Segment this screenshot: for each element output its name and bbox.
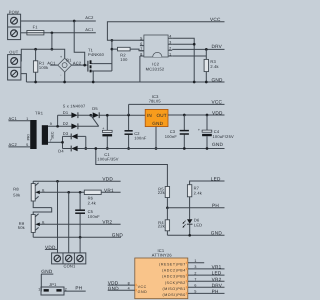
svg-text:6: 6 xyxy=(140,42,142,46)
wire AC2 node down to T1 gate area xyxy=(74,21,85,65)
svg-text:JP1: JP1 xyxy=(49,282,57,287)
node pin7 entry xyxy=(61,141,64,144)
wire PH line xyxy=(167,207,224,209)
svg-text:5: 5 xyxy=(194,290,196,294)
wire D3 cathode down xyxy=(85,136,87,148)
svg-text:(MISO)PB1: (MISO)PB1 xyxy=(162,287,185,291)
svg-text:2.4k: 2.4k xyxy=(88,200,96,205)
node VDD to CON1 xyxy=(56,180,59,183)
wire VCC top rail xyxy=(107,22,224,41)
fuse F1 xyxy=(27,25,44,35)
svg-text:1: 1 xyxy=(169,52,171,56)
capacitor C2 100nF xyxy=(125,115,147,149)
wire pin2 DRV line xyxy=(172,48,224,50)
svg-text:8: 8 xyxy=(140,52,142,56)
svg-text:F1: F1 xyxy=(33,25,39,30)
wire CON1-2 vertical xyxy=(68,192,70,253)
wire pin8 to ground rail xyxy=(139,56,141,82)
svg-text:GND: GND xyxy=(41,269,53,274)
voltage regulator IC3 78L05 xyxy=(145,94,168,127)
svg-text:4: 4 xyxy=(128,287,130,291)
svg-text:3: 3 xyxy=(169,41,171,45)
wire OUT-1 up to bridge + xyxy=(21,49,65,61)
svg-text:POW: POW xyxy=(9,9,19,14)
microcontroller IC1 ATTINY26 xyxy=(135,248,188,299)
svg-text:GND: GND xyxy=(212,142,224,147)
svg-text:5: 5 xyxy=(140,37,142,41)
wire CON1-3 vertical xyxy=(79,237,81,253)
wire IC1 pin5 PH xyxy=(188,292,225,294)
trimmer R8 50k xyxy=(13,181,84,207)
svg-text:PH: PH xyxy=(75,286,82,291)
node C1 top xyxy=(106,114,109,117)
svg-text:6: 6 xyxy=(194,284,196,288)
net label GND at JP1 xyxy=(41,269,53,274)
wire OUT-2 to ground rail xyxy=(21,74,27,82)
wire D3-D4 anodes xyxy=(62,136,64,148)
svg-text:1: 1 xyxy=(194,259,196,263)
node D2 anode xyxy=(56,125,59,128)
node F1 to OUT line xyxy=(51,48,54,51)
svg-text:D4: D4 xyxy=(58,149,64,154)
svg-text:+: + xyxy=(198,128,200,132)
svg-text:IN: IN xyxy=(147,113,152,118)
wire POW-1 to AC2 stub xyxy=(21,20,96,22)
wire GND label to JP1 xyxy=(40,274,42,291)
node R5 feed xyxy=(94,147,97,150)
connector OUT xyxy=(8,50,21,80)
capacitor C1 100uF/35V xyxy=(97,115,119,161)
node pin5 line xyxy=(111,39,114,42)
wire POW-2 to fuse xyxy=(21,32,27,34)
jumper JP1 xyxy=(38,282,66,295)
node T1 source xyxy=(92,81,95,84)
diode D5 xyxy=(91,106,145,118)
wire LED line xyxy=(190,181,225,185)
op-amp driver IC2 MC33152 xyxy=(140,35,172,72)
bridge rectifier B1 xyxy=(58,55,72,77)
svg-text:LED: LED xyxy=(212,271,222,276)
resistor R3 xyxy=(204,49,219,82)
svg-text:GND: GND xyxy=(152,121,163,126)
resistor R2 xyxy=(112,47,144,62)
capacitor C3 100nF xyxy=(165,115,189,149)
svg-text:100k: 100k xyxy=(39,65,48,70)
svg-text:2: 2 xyxy=(194,271,196,275)
svg-text:VDD: VDD xyxy=(212,111,223,116)
wire pin4 to pin3 xyxy=(172,38,194,44)
svg-text:DRV: DRV xyxy=(212,283,223,288)
wire F1 to AC1 stub xyxy=(44,32,96,34)
svg-text:2.4k: 2.4k xyxy=(194,190,202,195)
svg-text:50k: 50k xyxy=(13,192,20,197)
svg-text:VCC: VCC xyxy=(212,100,223,105)
svg-text:CON1: CON1 xyxy=(64,264,76,269)
wire IC1 pin1 stub xyxy=(188,262,204,264)
node R3 top xyxy=(205,48,208,51)
svg-text:AC1: AC1 xyxy=(85,27,94,32)
wire IC1 pin2 LED xyxy=(188,274,225,276)
svg-text:D5: D5 xyxy=(92,106,98,111)
svg-text:B1: B1 xyxy=(66,58,72,63)
node R2 left xyxy=(111,48,114,51)
svg-text:22k: 22k xyxy=(158,190,165,195)
svg-text:GND: GND xyxy=(112,233,124,238)
svg-text:D1: D1 xyxy=(63,110,69,115)
node pins 3-4 xyxy=(193,43,196,46)
svg-text:7: 7 xyxy=(140,47,142,51)
svg-text:OUT: OUT xyxy=(9,50,18,55)
diode D4 xyxy=(58,146,86,154)
capacitor C5 100nF xyxy=(75,192,100,237)
svg-text:PH: PH xyxy=(212,289,219,294)
transformer TR1 xyxy=(9,111,55,149)
svg-text:22k: 22k xyxy=(158,224,165,229)
svg-text:5: 5 xyxy=(26,143,28,147)
svg-text:P4NK60: P4NK60 xyxy=(88,52,105,57)
wire IC1 pin7 VR2 xyxy=(188,280,225,282)
node wiper to CON1 xyxy=(67,191,70,194)
svg-text:100nF: 100nF xyxy=(165,134,178,139)
wire D1-D2 anodes xyxy=(57,115,59,126)
wire JP1 pin2 PH stub xyxy=(64,290,86,292)
svg-text:4: 4 xyxy=(169,35,171,39)
node F1 output xyxy=(51,31,54,34)
svg-text:50k: 50k xyxy=(18,225,25,230)
node C4 top xyxy=(206,114,209,117)
svg-text:1: 1 xyxy=(38,288,40,292)
svg-text:(MOSI)PB0: (MOSI)PB0 xyxy=(162,293,185,297)
node C4 bottom xyxy=(206,147,209,150)
node C1 bottom xyxy=(106,147,109,150)
wire CON1-1 vertical xyxy=(57,181,59,253)
wire IC1 pin3 VR1 xyxy=(188,268,225,270)
wire GND rail lower right xyxy=(167,234,224,236)
svg-text:DRV: DRV xyxy=(212,44,223,49)
svg-text:78L05: 78L05 xyxy=(149,98,162,103)
svg-text:(SCK)PB2: (SCK)PB2 xyxy=(165,281,186,285)
wire zero-cross feed to R5 xyxy=(96,149,168,187)
resistor R4 xyxy=(158,208,170,236)
node C3 top xyxy=(183,114,186,117)
resistor R1 xyxy=(33,49,48,82)
svg-text:D2: D2 xyxy=(63,121,69,126)
svg-text:S: S xyxy=(42,188,45,193)
svg-text:VR2: VR2 xyxy=(102,220,112,225)
node wiper to C5 xyxy=(79,191,82,194)
wire sec pin9 to D2 xyxy=(48,125,71,127)
wire bridge minus down to rail xyxy=(64,72,66,82)
wire VCC rail to IN line xyxy=(128,104,130,115)
svg-text:100nF: 100nF xyxy=(134,136,147,141)
svg-text:100uF/25V: 100uF/25V xyxy=(213,134,235,139)
node R3 bottom xyxy=(205,81,208,84)
resistor R6 xyxy=(84,190,120,205)
svg-text:TR1: TR1 xyxy=(35,111,44,116)
diode D3 xyxy=(63,131,86,139)
svg-text:AC2: AC2 xyxy=(9,142,18,147)
svg-text:GND: GND xyxy=(212,77,224,82)
svg-text:LED: LED xyxy=(211,176,221,181)
node IC3 gnd xyxy=(155,147,158,150)
svg-text:GND: GND xyxy=(211,231,223,236)
resistor R7 xyxy=(187,185,202,220)
svg-text:S: S xyxy=(42,220,45,225)
svg-text:8: 8 xyxy=(128,281,130,285)
node on AC2 line xyxy=(73,20,76,23)
svg-text:2: 2 xyxy=(169,47,171,51)
svg-text:LED: LED xyxy=(194,222,202,227)
wire VDD mid line xyxy=(33,180,120,182)
node C2 top xyxy=(127,114,130,117)
svg-text:100nF: 100nF xyxy=(88,214,101,219)
diode D1 xyxy=(58,110,91,118)
svg-text:MC33152: MC33152 xyxy=(146,66,165,71)
svg-text:VCC: VCC xyxy=(210,17,221,22)
ground rail mid xyxy=(78,148,225,150)
svg-text:(ADC2)PB4: (ADC2)PB4 xyxy=(162,269,186,273)
transistor T1 P4NK60 xyxy=(88,47,112,82)
wire pin1 to R3 xyxy=(172,55,206,57)
net label VDD at CON1 xyxy=(45,245,58,250)
svg-text:PRI: PRI xyxy=(26,134,30,140)
svg-text:1: 1 xyxy=(26,117,28,121)
svg-text:+: + xyxy=(102,127,104,131)
svg-text:VR1: VR1 xyxy=(104,188,114,193)
svg-text:3: 3 xyxy=(194,265,196,269)
node C3 bottom xyxy=(183,147,186,150)
node R1 top xyxy=(34,48,37,51)
node GND to CON1-3 xyxy=(79,236,82,239)
node D3/D4 cathodes xyxy=(84,147,87,150)
svg-text:VR1: VR1 xyxy=(212,265,222,270)
svg-text:ATTINY26: ATTINY26 xyxy=(152,253,173,258)
node pin34 gnd xyxy=(193,81,196,84)
wire T1 to R2 vertical xyxy=(111,40,113,71)
wire sec pin7 to D3/D4 xyxy=(48,141,63,143)
wire F1 node down to OUT line xyxy=(51,33,53,49)
svg-text:+: + xyxy=(60,55,62,59)
svg-text:2.4k: 2.4k xyxy=(210,64,218,69)
svg-text:(RESET)PB7: (RESET)PB7 xyxy=(159,262,186,266)
svg-text:VDD: VDD xyxy=(102,177,113,182)
connector CON1 xyxy=(52,253,86,269)
node R1 bottom xyxy=(34,81,37,84)
svg-text:PH: PH xyxy=(212,203,219,208)
node C2 bottom xyxy=(127,147,130,150)
wire diagonal D1/D5 to D2 cathode xyxy=(91,115,99,126)
wire pin3 down to ground rail xyxy=(172,44,194,82)
svg-text:AC1: AC1 xyxy=(9,116,18,121)
node gate feed xyxy=(83,64,86,67)
svg-text:9: 9 xyxy=(50,122,52,126)
wire IC1 pin6 DRV xyxy=(188,286,225,288)
node bridge minus xyxy=(63,81,66,84)
svg-text:D3: D3 xyxy=(63,131,69,136)
node R4/R5 junction xyxy=(166,206,169,209)
net label VDD at IC1 pin8 xyxy=(108,281,135,286)
svg-text:VR2: VR2 xyxy=(212,277,222,282)
svg-text:(ADC3)PB5: (ADC3)PB5 xyxy=(162,275,186,279)
svg-text:100uF/35V: 100uF/35V xyxy=(97,157,119,162)
svg-text:AC2: AC2 xyxy=(85,15,94,20)
svg-text:7: 7 xyxy=(194,277,196,281)
LED D6 xyxy=(183,217,203,235)
svg-text:VCC: VCC xyxy=(138,285,147,289)
wire IC3 gnd down xyxy=(155,127,157,149)
ground rail (T1 source net) xyxy=(26,81,224,83)
wire AC1 stub at bridge xyxy=(50,64,58,66)
resistor R5 xyxy=(158,186,170,207)
node D1-D5 xyxy=(89,114,92,117)
svg-text:AC1: AC1 xyxy=(47,60,56,65)
wire GND line at CON1 xyxy=(33,236,121,238)
connector POW xyxy=(8,9,21,39)
capacitor C4 100uF/25V xyxy=(198,115,234,149)
wire IC3 out / VDD line xyxy=(168,114,225,116)
svg-text:R8: R8 xyxy=(13,187,19,192)
svg-text:100: 100 xyxy=(120,57,128,62)
wire VCC mid rail xyxy=(129,103,225,105)
svg-text:5 x 1N4007: 5 x 1N4007 xyxy=(63,103,86,108)
trimmer R9 50k xyxy=(18,208,121,238)
net label GND at IC1 pin4 xyxy=(108,286,135,291)
node D6 cathode xyxy=(188,234,191,237)
diode D2 xyxy=(63,121,99,129)
wire bridge to T1 gate xyxy=(72,64,88,66)
svg-text:OUT: OUT xyxy=(157,113,167,118)
svg-text:GND: GND xyxy=(138,290,148,294)
